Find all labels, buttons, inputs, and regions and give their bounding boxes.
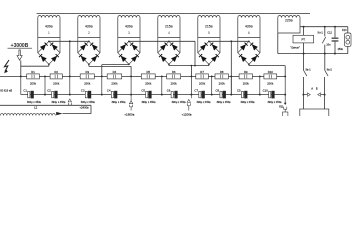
svg-text:+1200в: +1200в — [181, 113, 191, 116]
svg-text:C10: C10 — [263, 89, 269, 93]
svg-text:Кл-1: Кл-1 — [318, 32, 324, 35]
svg-text:1: 1 — [48, 31, 50, 35]
svg-text:390μ x 450в: 390μ x 450в — [27, 100, 42, 104]
svg-text:C5: C5 — [141, 89, 145, 93]
svg-text:430в: 430в — [85, 25, 93, 29]
svg-text:6: 6 — [248, 31, 250, 35]
svg-text:Кв-1: Кв-1 — [306, 68, 312, 71]
svg-text:R3: R3 — [85, 70, 89, 74]
svg-text:430в: 430в — [245, 25, 253, 29]
svg-text:200k: 200k — [171, 81, 178, 85]
svg-text:390μ x 450в: 390μ x 450в — [216, 100, 231, 104]
svg-text:R4: R4 — [113, 70, 117, 74]
svg-text:L2: L2 — [34, 106, 38, 110]
svg-text:3: 3 — [128, 31, 130, 35]
svg-text:2: 2 — [88, 31, 90, 35]
svg-text:R7: R7 — [200, 70, 204, 74]
svg-text:+2400в: +2400в — [79, 106, 89, 110]
svg-text:200k: 200k — [145, 81, 152, 85]
svg-text:Б: Б — [316, 86, 318, 90]
svg-text:А: А — [311, 86, 313, 90]
svg-text:215в: 215в — [205, 25, 213, 29]
svg-text:“Омчон”: “Омчон” — [290, 47, 300, 50]
svg-text:R1: R1 — [31, 70, 35, 74]
svg-text:200k: 200k — [199, 81, 206, 85]
svg-text:200k: 200k — [267, 81, 274, 85]
svg-text:R2: R2 — [54, 70, 58, 74]
svg-text:200k: 200k — [219, 81, 226, 85]
svg-text:C8: C8 — [216, 89, 220, 93]
svg-text:00 К16 нВ: 00 К16 нВ — [0, 88, 12, 92]
svg-text:200k: 200k — [84, 81, 91, 85]
svg-text:R5: R5 — [146, 70, 150, 74]
svg-text:390μ x 450в: 390μ x 450в — [141, 100, 156, 104]
svg-text:5: 5 — [208, 31, 210, 35]
svg-text:10н: 10н — [326, 43, 331, 46]
svg-text:430в: 430в — [125, 25, 133, 29]
svg-text:R6: R6 — [172, 70, 176, 74]
svg-text:R9: R9 — [244, 70, 248, 74]
svg-text:C1: C1 — [23, 89, 27, 93]
svg-text:РТ: РТ — [302, 37, 306, 41]
svg-text:R11: R11 — [279, 106, 284, 108]
svg-text:430в: 430в — [45, 25, 53, 29]
svg-text:390μ x 450в: 390μ x 450в — [81, 100, 96, 104]
svg-text:C3: C3 — [81, 89, 85, 93]
svg-text:С12: С12 — [327, 32, 332, 35]
svg-text:390μ x 450в: 390μ x 450в — [51, 100, 66, 104]
svg-text:390μ x 450в: 390μ x 450в — [241, 100, 256, 104]
svg-text:215в: 215в — [165, 25, 173, 29]
svg-text:390μ x 450в: 390μ x 450в — [267, 100, 282, 104]
svg-text:C6: C6 — [167, 89, 171, 93]
svg-text:R10: R10 — [268, 70, 274, 74]
svg-text:C4: C4 — [107, 89, 111, 93]
svg-text:+1800в: +1800в — [124, 113, 134, 116]
svg-text:390μ x 450в: 390μ x 450в — [111, 100, 126, 104]
svg-text:Кв-2: Кв-2 — [327, 68, 333, 71]
svg-text:390μ x 450в: 390μ x 450в — [172, 100, 187, 104]
svg-text:200k: 200k — [30, 81, 37, 85]
svg-text:C7: C7 — [194, 89, 198, 93]
svg-text:C9: C9 — [237, 89, 241, 93]
svg-text:C2: C2 — [47, 89, 51, 93]
svg-text:200k: 200k — [243, 81, 250, 85]
svg-text:390μ x 450в: 390μ x 450в — [197, 100, 212, 104]
svg-text:200k: 200k — [53, 81, 60, 85]
svg-text:220в: 220в — [285, 18, 293, 22]
svg-text:4: 4 — [168, 31, 170, 35]
svg-text:250в: 250в — [338, 48, 344, 51]
svg-text:200k: 200k — [111, 81, 118, 85]
svg-text:R13: R13 — [342, 29, 347, 32]
svg-text:R8: R8 — [220, 70, 224, 74]
